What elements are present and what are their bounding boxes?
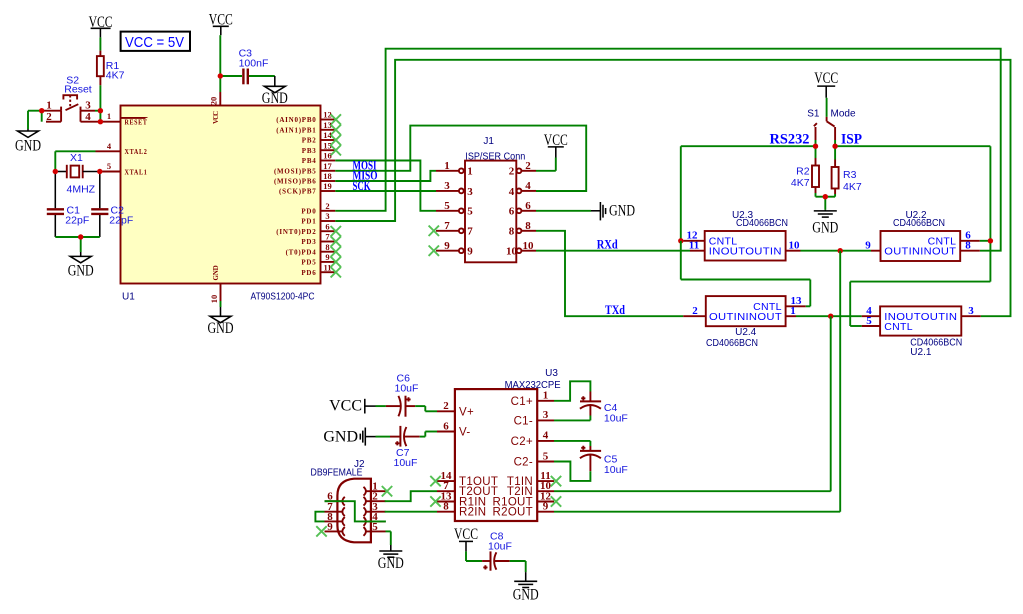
analog switch U2.3 CD4066BCN body xyxy=(705,231,786,261)
svg-text:10uF: 10uF xyxy=(604,464,628,476)
svg-text:R3: R3 xyxy=(843,169,857,181)
wire VCC to J1 pin2 xyxy=(536,147,556,171)
svg-text:GND: GND xyxy=(812,220,838,237)
svg-text:VCC: VCC xyxy=(212,110,220,124)
svg-text:2: 2 xyxy=(692,305,698,317)
no-connect X U3 R1OUT xyxy=(551,496,561,506)
svg-text:GND: GND xyxy=(15,138,41,155)
wire C1/C2 ground rail xyxy=(55,237,100,252)
svg-text:6: 6 xyxy=(443,420,449,432)
svg-text:C1+: C1+ xyxy=(511,396,533,408)
svg-text:GND: GND xyxy=(68,263,94,280)
U3 pin 13 R1IN xyxy=(437,490,486,508)
no-connect X on U1 pin 12 xyxy=(331,114,341,124)
U1 pin 9 PD5 xyxy=(301,252,335,267)
svg-text:100nF: 100nF xyxy=(239,58,269,70)
svg-text:10: 10 xyxy=(506,246,518,258)
svg-text:U1: U1 xyxy=(122,292,135,303)
svg-text:10uF: 10uF xyxy=(604,412,628,424)
wire PD1 to U2.1 pin3 (long loop) xyxy=(335,60,1010,316)
U3 pin 3 C1- xyxy=(514,409,554,427)
svg-text:(AIN0)PB0: (AIN0)PB0 xyxy=(276,116,316,124)
node U2.3 pin12 / RS232 xyxy=(678,238,683,243)
U1 pin 11 PD6 xyxy=(301,262,335,277)
node RXd column junction xyxy=(838,248,843,253)
svg-text:8: 8 xyxy=(443,501,449,513)
U3 pin 6 V- xyxy=(437,420,470,438)
J1 pin 3 xyxy=(436,180,473,198)
wire R1 to RESET node xyxy=(99,85,101,121)
wire J2 pin2 to U3 T2OUT xyxy=(385,491,437,501)
svg-text:4K7: 4K7 xyxy=(791,177,810,189)
label C7 10uF xyxy=(394,447,418,469)
label C6 10uF xyxy=(395,373,419,395)
capacitor C3 xyxy=(220,69,274,85)
no-connect X on U1 pin 14 xyxy=(331,135,341,145)
resistor R2 xyxy=(812,146,825,197)
U1 pin 20 VCC top xyxy=(209,92,221,124)
svg-text:VCC = 5V: VCC = 5V xyxy=(125,34,184,51)
svg-text:R2IN: R2IN xyxy=(459,507,486,519)
J1 pin 4 xyxy=(509,180,536,198)
ground GND (S2) xyxy=(15,129,41,155)
wire J2 pin3 to U3 R2IN xyxy=(385,511,437,513)
svg-text:6: 6 xyxy=(325,221,329,231)
capacitor C5 xyxy=(554,441,601,481)
label C1 22pF xyxy=(65,204,89,226)
node TXd column junction xyxy=(828,314,833,319)
ground GND bar style (U3 V-) xyxy=(323,428,365,446)
analog switch U2.2 CD4066BCN body xyxy=(881,231,961,261)
svg-text:1: 1 xyxy=(107,111,111,121)
J2 pin 4 xyxy=(364,511,386,526)
svg-text:8: 8 xyxy=(965,240,971,252)
U1 pin 12 (AIN0)PB0 xyxy=(276,110,335,125)
ground GND earth (C8) xyxy=(513,581,539,603)
svg-text:9: 9 xyxy=(327,521,333,533)
wire R2/R3 to GND xyxy=(824,197,826,210)
wire SCK PB7 to J1 pin3 xyxy=(335,190,436,192)
svg-text:Reset: Reset xyxy=(64,84,92,96)
power VCC (U3 V+) xyxy=(329,398,365,415)
svg-text:10uF: 10uF xyxy=(488,541,512,553)
U3 pin 7 T2OUT xyxy=(437,480,498,498)
J1 pin 8 xyxy=(509,220,536,238)
J2 pin 3 xyxy=(364,501,386,516)
capacitor C2 xyxy=(91,172,108,238)
no-connect X on U1 pin 7 xyxy=(331,236,341,246)
U1 pin 16 PB4 xyxy=(302,151,336,166)
svg-text:5: 5 xyxy=(372,521,378,533)
svg-text:1: 1 xyxy=(790,305,796,317)
svg-text:CD4066BCN: CD4066BCN xyxy=(893,218,945,229)
node RS232 junction xyxy=(813,144,818,149)
svg-text:OUTININOUT: OUTININOUT xyxy=(884,246,956,258)
svg-text:GND: GND xyxy=(262,90,288,107)
no-connect X on U1 pin 11 xyxy=(331,267,341,277)
svg-text:9: 9 xyxy=(467,246,473,258)
switch S1 Mode xyxy=(814,117,835,140)
U1 pin 1 RESET xyxy=(107,111,148,126)
analog switch U2.1 CD4066BCN body xyxy=(880,306,961,335)
svg-text:V-: V- xyxy=(459,427,470,439)
J1 pin 6 xyxy=(509,200,536,218)
node ISP junction xyxy=(832,144,837,149)
J2 pin 2 xyxy=(364,491,386,506)
label S2 Reset xyxy=(64,74,92,95)
S2 pin 1 xyxy=(42,110,61,112)
U2.4 pin 1 xyxy=(786,305,796,317)
wire XTAL1 stub xyxy=(100,171,121,173)
no-connect X J2 pin1 xyxy=(382,486,392,496)
svg-text:4K7: 4K7 xyxy=(106,69,125,81)
svg-text:U2.4: U2.4 xyxy=(735,327,757,338)
svg-text:10uF: 10uF xyxy=(394,457,418,469)
svg-text:9: 9 xyxy=(325,252,329,262)
svg-text:6: 6 xyxy=(525,200,531,212)
svg-text:GND: GND xyxy=(208,320,234,337)
svg-text:SCK: SCK xyxy=(353,178,372,193)
label C4 10uF xyxy=(604,402,628,425)
svg-text:VCC: VCC xyxy=(329,398,362,415)
U1 pin 4 XTAL2 xyxy=(96,141,148,156)
U2.3 pin 10 xyxy=(786,240,801,252)
svg-text:6: 6 xyxy=(509,206,515,218)
svg-text:PD5: PD5 xyxy=(301,259,316,267)
node R1/S2 junction xyxy=(98,108,103,113)
label C2 22pF xyxy=(109,204,133,226)
wire TXd down to T2IN xyxy=(554,316,831,491)
svg-text:S1: S1 xyxy=(807,109,820,120)
label C3 100nF xyxy=(239,48,269,70)
svg-text:5: 5 xyxy=(467,206,473,218)
analog switch U2.4 CD4066BCN body xyxy=(706,296,786,326)
node R2/R3 junction xyxy=(823,194,828,199)
svg-text:5: 5 xyxy=(444,200,450,212)
wire J2 pin7 to pin8 loopback xyxy=(315,512,324,522)
S2 pin 2 xyxy=(46,111,61,122)
ground GND earth (R2/R3) xyxy=(812,210,838,237)
svg-text:ISP: ISP xyxy=(841,131,862,147)
label R3 4K7 xyxy=(843,169,862,193)
wire J1 pin6 to GND xyxy=(536,210,591,212)
svg-text:8: 8 xyxy=(509,226,515,238)
wire J2 pin5 to GND xyxy=(386,531,391,551)
svg-text:4: 4 xyxy=(85,111,91,123)
svg-text:PD1: PD1 xyxy=(301,218,316,226)
capacitor C4 xyxy=(554,381,601,420)
svg-text:5: 5 xyxy=(107,161,111,171)
svg-text:C2-: C2- xyxy=(514,457,533,469)
U3 pin 1 C1+ xyxy=(511,390,554,408)
svg-text:GND: GND xyxy=(513,587,539,604)
U3 pin 12 R1OUT xyxy=(493,490,554,508)
wire VCC to U1 pin20 and C3 xyxy=(219,26,222,92)
U1 pin 2 PD0 xyxy=(301,201,335,216)
connector J1 ISP/SER Conn body xyxy=(465,161,516,263)
svg-text:4K7: 4K7 xyxy=(843,181,862,193)
svg-text:3: 3 xyxy=(968,305,974,317)
wire RS232 to U2.4 pin13 (CNTL chain) xyxy=(681,241,811,306)
svg-text:DB9FEMALE: DB9FEMALE xyxy=(311,468,363,479)
svg-text:PD0: PD0 xyxy=(301,208,316,216)
svg-text:10: 10 xyxy=(523,240,535,252)
U3 pin 8 R2IN xyxy=(437,501,486,519)
U3 pin 14 T1OUT xyxy=(437,470,498,488)
svg-text:Mode: Mode xyxy=(831,109,856,120)
wire U1 GND stem xyxy=(220,301,222,316)
no-connect X on U1 pin 15 xyxy=(331,145,341,155)
J1 pin 9 xyxy=(436,240,473,258)
J1 pin 5 xyxy=(436,200,473,218)
capacitor C8 xyxy=(482,551,526,581)
J2 pin 5 xyxy=(364,521,386,536)
svg-text:RESET: RESET xyxy=(125,119,148,127)
wire RXd U2.3 pin10 to U2.2 pin9 xyxy=(801,250,872,252)
svg-text:1: 1 xyxy=(543,390,549,402)
J1 pin 7 xyxy=(436,220,473,238)
no-connect X U3 T1OUT xyxy=(430,476,440,486)
svg-text:7: 7 xyxy=(444,220,450,232)
node S2 left junction xyxy=(39,108,44,113)
crystal X1 4MHZ xyxy=(55,165,100,179)
node XTAL1/C2 xyxy=(97,169,102,174)
J2 pin 9 xyxy=(325,521,345,536)
U2.2 pin 6 xyxy=(960,230,980,242)
power VCC (R1 pull-up) xyxy=(89,14,113,31)
svg-text:(AIN1)PB1: (AIN1)PB1 xyxy=(276,127,316,135)
svg-text:GND: GND xyxy=(323,429,358,446)
wire ISP net xyxy=(835,140,990,326)
svg-text:INOUTOUTIN: INOUTOUTIN xyxy=(709,246,782,258)
op chip body U1 AT90S1200-4PC xyxy=(121,106,321,284)
svg-text:(MOSI)PB5: (MOSI)PB5 xyxy=(274,168,317,176)
label R1 4K7 xyxy=(106,60,125,81)
annotation box VCC = 5V xyxy=(121,32,190,51)
svg-text:22pF: 22pF xyxy=(109,215,133,227)
J2 pin 7 xyxy=(325,501,345,516)
connector J2 DB9FEMALE body xyxy=(337,479,371,543)
U1 pin 5 XTAL1 xyxy=(100,161,148,176)
svg-text:CD4066BCN: CD4066BCN xyxy=(706,338,758,349)
J1 pin 10 xyxy=(506,240,536,258)
svg-text:MAX232CPE: MAX232CPE xyxy=(505,380,561,391)
wire XTAL2 net xyxy=(55,151,95,171)
U2.1 pin 3 xyxy=(961,305,980,317)
U1 pin 7 PD3 xyxy=(301,232,335,247)
svg-text:PB4: PB4 xyxy=(302,157,317,165)
svg-text:CD4066BCN: CD4066BCN xyxy=(736,218,788,229)
svg-text:5: 5 xyxy=(866,315,872,327)
svg-text:GND: GND xyxy=(378,555,404,572)
U1 pin 13 (AIN1)PB1 xyxy=(276,120,335,135)
wire TXd net xyxy=(536,231,683,316)
svg-text:PB2: PB2 xyxy=(302,137,317,145)
svg-text:RS232: RS232 xyxy=(770,131,810,147)
svg-text:GND: GND xyxy=(609,203,635,220)
wire RXd down to R2OUT xyxy=(554,251,840,512)
svg-text:VCC: VCC xyxy=(814,70,838,87)
svg-text:GND: GND xyxy=(212,265,220,281)
svg-text:2: 2 xyxy=(509,166,515,178)
svg-text:AT90S1200-4PC: AT90S1200-4PC xyxy=(251,292,315,303)
U3 pin 5 C2- xyxy=(514,450,554,468)
svg-text:2: 2 xyxy=(525,160,531,172)
svg-text:2: 2 xyxy=(46,111,52,123)
svg-text:OUTININOUT: OUTININOUT xyxy=(709,311,782,323)
ground GND (C3) xyxy=(262,76,288,107)
svg-text:11: 11 xyxy=(689,240,699,252)
U1 pin 8 (T0)PD4 xyxy=(286,242,336,257)
power VCC (J1 pin2) xyxy=(544,132,568,149)
wire RXd net xyxy=(536,250,690,252)
J1 pin 2 xyxy=(509,160,536,178)
svg-text:17: 17 xyxy=(323,161,332,171)
svg-text:4: 4 xyxy=(525,180,531,192)
svg-text:1: 1 xyxy=(444,160,450,172)
wire PB4 to J1 pin5 xyxy=(335,161,436,211)
no-connect X U3 T1IN xyxy=(551,476,561,486)
no-connect X on U1 pin 6 xyxy=(331,226,341,236)
wire TXd U2.4 pin1 to U2.1 pin4 xyxy=(796,315,862,317)
svg-text:PD3: PD3 xyxy=(301,238,316,246)
svg-text:XTAL2: XTAL2 xyxy=(125,148,148,156)
no-connect X on U1 pin 13 xyxy=(331,125,341,135)
wire S2 common to GND xyxy=(28,111,42,129)
svg-text:2: 2 xyxy=(443,400,449,412)
svg-text:1: 1 xyxy=(46,100,52,112)
no-connect X on J1 pin 7 xyxy=(429,226,439,236)
U1 pin 10 GND bottom xyxy=(209,265,221,304)
ground GND bar style (J1 pin6) xyxy=(591,202,635,220)
svg-text:9: 9 xyxy=(444,240,450,252)
U1 pin 15 PB3 xyxy=(302,140,336,155)
svg-text:(MISO)PB6: (MISO)PB6 xyxy=(274,178,317,186)
U2.1 pin 5 xyxy=(862,315,880,327)
U2.1 pin 4 xyxy=(862,305,880,317)
svg-text:C2+: C2+ xyxy=(511,436,533,448)
U3 pin 11 T1IN xyxy=(507,470,554,488)
svg-text:XTAL1: XTAL1 xyxy=(125,168,148,176)
label R2 4K7 xyxy=(791,165,810,189)
svg-text:ISP/SER Conn: ISP/SER Conn xyxy=(465,152,525,163)
svg-text:J1: J1 xyxy=(483,136,494,147)
U2.4 pin 13 xyxy=(786,295,806,307)
svg-text:10uF: 10uF xyxy=(395,383,419,395)
svg-text:(SCK)PB7: (SCK)PB7 xyxy=(279,188,317,196)
svg-text:C1-: C1- xyxy=(514,415,533,427)
svg-text:R2OUT: R2OUT xyxy=(493,507,533,519)
U1 pin 3 PD1 xyxy=(301,211,335,226)
node RESET junction xyxy=(98,119,103,124)
U1 pin 17 (MOSI)PB5 xyxy=(274,161,335,176)
no-connect X on U1 pin 8 xyxy=(331,247,341,257)
svg-text:4MHZ: 4MHZ xyxy=(67,183,96,195)
J2 pin 8 xyxy=(325,511,345,526)
svg-text:1: 1 xyxy=(467,166,473,178)
node VCC/C3 junction xyxy=(218,73,223,78)
power VCC (C8) xyxy=(454,526,478,543)
J2 pin 1 xyxy=(364,481,386,496)
svg-text:7: 7 xyxy=(467,226,473,238)
U1 pin 6 (INT0)PD2 xyxy=(276,221,335,236)
svg-text:TXd: TXd xyxy=(605,302,626,317)
svg-text:X1: X1 xyxy=(70,152,83,164)
svg-text:CNTL: CNTL xyxy=(884,321,913,333)
wire VCC to C8 xyxy=(466,541,482,561)
switch S2 xyxy=(61,95,80,111)
svg-text:U2.1: U2.1 xyxy=(910,347,932,358)
node XTAL2/C1 xyxy=(53,169,58,174)
svg-text:4: 4 xyxy=(509,186,515,198)
svg-text:18: 18 xyxy=(323,171,332,181)
svg-text:10: 10 xyxy=(209,295,219,304)
capacitor C1 xyxy=(47,172,64,238)
wire J2 pin6 to pin4 loopback xyxy=(325,501,386,521)
power VCC (S1) xyxy=(814,70,838,87)
no-connect X J2 pin9 xyxy=(316,526,326,536)
resistor R1 xyxy=(97,51,104,86)
svg-text:22pF: 22pF xyxy=(65,215,89,227)
U3 pin 9 R2OUT xyxy=(493,501,554,519)
no-connect X on J1 pin 9 xyxy=(429,246,439,256)
IC U3 MAX232CPE body xyxy=(455,389,537,521)
svg-text:3: 3 xyxy=(543,409,549,421)
ground GND earth (J2 pin5) xyxy=(378,551,404,572)
wire VCC net top-left (to R1) xyxy=(99,28,101,37)
svg-text:VCC: VCC xyxy=(454,526,478,543)
svg-text:4: 4 xyxy=(543,430,549,442)
ground GND (C1/C2) xyxy=(68,252,94,280)
wire S2 pin3 to R1 node xyxy=(95,110,100,112)
power VCC (U1 pin 20 / C3) xyxy=(209,12,233,29)
wire VCC to S1 xyxy=(825,86,827,117)
svg-text:8: 8 xyxy=(525,220,531,232)
J2 pin 6 xyxy=(325,491,345,506)
svg-text:3: 3 xyxy=(467,186,473,198)
svg-text:8: 8 xyxy=(325,242,329,252)
RESET overline xyxy=(125,117,148,119)
resistor R3 xyxy=(825,146,838,197)
svg-text:3: 3 xyxy=(444,180,450,192)
U1 pin 18 (MISO)PB6 xyxy=(274,171,335,186)
svg-text:16: 16 xyxy=(323,151,332,161)
U3 pin 10 T2IN xyxy=(507,480,554,498)
U2.3 pin 11 xyxy=(689,240,705,252)
node U2.2 pin6 / ISP xyxy=(988,238,993,243)
svg-text:3: 3 xyxy=(85,100,91,112)
svg-text:PD6: PD6 xyxy=(301,269,316,277)
S2 pin 4 / U1 RESET stub xyxy=(81,121,121,123)
label C5 10uF xyxy=(604,453,628,476)
svg-text:9: 9 xyxy=(543,501,549,513)
U2.4 pin 2 xyxy=(683,305,706,317)
U2.2 pin 9 xyxy=(865,240,880,252)
svg-text:2: 2 xyxy=(325,201,329,211)
U2.2 pin 8 xyxy=(960,240,980,252)
U3 pin 4 C2+ xyxy=(511,430,554,448)
wire PD0 to U2.2 pin8 (long loop) xyxy=(335,49,1000,251)
svg-text:(T0)PD4: (T0)PD4 xyxy=(286,248,317,256)
svg-text:V+: V+ xyxy=(459,406,474,418)
wire RS232 net xyxy=(681,140,816,241)
svg-text:9: 9 xyxy=(865,240,871,252)
wire MOSI PB5 to J1 pin4 loop xyxy=(335,126,586,191)
svg-text:5: 5 xyxy=(543,450,549,462)
svg-text:10: 10 xyxy=(789,240,801,252)
svg-text:3: 3 xyxy=(325,211,329,221)
U2.3 pin 12 xyxy=(683,230,705,242)
